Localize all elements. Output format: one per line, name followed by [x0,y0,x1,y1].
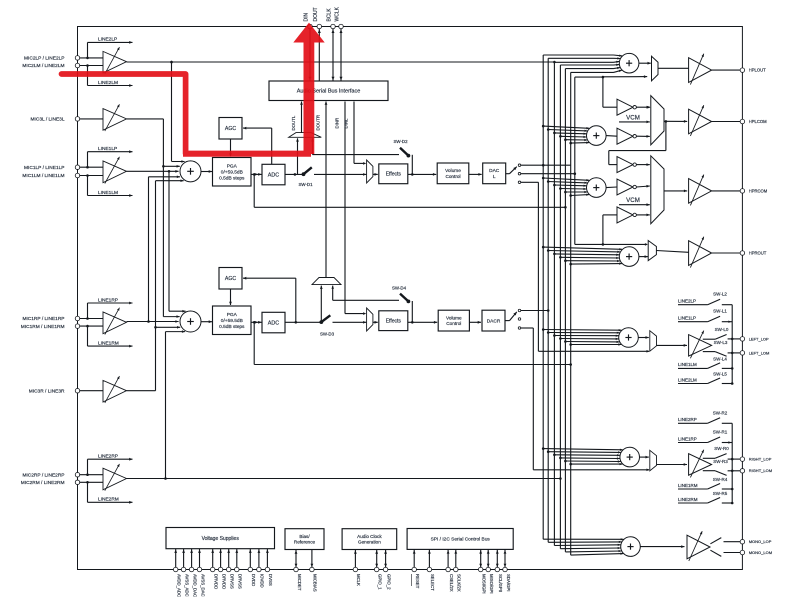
svg-text:SW-D1: SW-D1 [298,182,313,187]
svg-text:DRVDD: DRVDD [221,574,226,589]
svg-text:DOUTL: DOUTL [291,115,296,130]
svg-text:MIC2LM / LINE2LM: MIC2LM / LINE2LM [22,63,64,69]
svg-text:DRVSS: DRVSS [238,574,243,589]
svg-text:HPLOUT: HPLOUT [749,68,766,73]
svg-text:HPROUT: HPROUT [749,251,767,256]
svg-text:SW-L2: SW-L2 [713,292,727,297]
svg-text:L: L [493,174,496,180]
svg-text:AVDD_ADC: AVDD_ADC [177,574,182,597]
svg-text:LINE2LP: LINE2LP [678,299,696,304]
svg-text:SW-D2: SW-D2 [393,139,408,144]
svg-text:LINE2RP: LINE2RP [98,454,118,460]
svg-text:LEFT_LOP: LEFT_LOP [749,336,769,341]
svg-text:VCM: VCM [626,197,640,204]
svg-text:LINE2LP: LINE2LP [98,37,117,43]
svg-text:IOVDD: IOVDD [260,574,265,588]
svg-text:LINE1RP: LINE1RP [98,297,118,303]
svg-text:LINE1RM: LINE1RM [98,340,119,346]
svg-text:AGC: AGC [225,276,236,282]
svg-text:MIC2RM / LINE2RM: MIC2RM / LINE2RM [21,480,65,486]
svg-text:DINR: DINR [334,118,339,129]
svg-text:SW-R0: SW-R0 [714,446,729,451]
svg-text:MIC1RM / LINE1RM: MIC1RM / LINE1RM [21,324,65,330]
svg-text:LINE1LP: LINE1LP [678,316,696,321]
svg-text:AGC: AGC [225,126,236,132]
svg-text:DOUT: DOUT [313,7,319,21]
svg-text:MICBIAS: MICBIAS [313,574,318,592]
svg-text:Effects: Effects [386,319,402,325]
svg-text:Volume: Volume [445,168,461,173]
svg-text:AVSS_ADC: AVSS_ADC [184,574,189,597]
svg-text:ADC: ADC [268,320,279,326]
svg-text:ADC: ADC [268,172,279,178]
svg-text:AVDD_DAC: AVDD_DAC [192,574,197,597]
svg-text:SW-L5: SW-L5 [713,372,727,377]
svg-text:SW-L0: SW-L0 [715,327,729,332]
svg-text:SCL/GPII: SCL/GPII [498,574,503,592]
svg-text:DAC: DAC [489,168,500,174]
svg-text:LINE1LM: LINE1LM [98,190,118,196]
svg-text:LINE1RM: LINE1RM [678,483,698,488]
svg-text:SW-L1: SW-L1 [713,309,727,314]
svg-text:HPLCOM: HPLCOM [749,119,767,124]
svg-text:MIC1LP / LINE1LP: MIC1LP / LINE1LP [24,165,64,171]
svg-text:LINE2LM: LINE2LM [678,377,697,382]
svg-text:SELECT: SELECT [430,574,435,591]
svg-text:Effects: Effects [386,172,402,178]
svg-text:MIC2RP / LINE2RP: MIC2RP / LINE2RP [22,472,64,478]
svg-text:LEFT_LOM: LEFT_LOM [749,350,770,355]
svg-text:Audio Clock: Audio Clock [357,534,382,539]
svg-text:SW-R4: SW-R4 [713,477,728,482]
svg-text:SW-D3: SW-D3 [320,331,335,336]
svg-text:PGA: PGA [227,164,238,170]
svg-text:LINE1LM: LINE1LM [678,362,697,367]
svg-text:DOUTR: DOUTR [315,115,320,131]
svg-text:RESET: RESET [415,574,420,589]
svg-text:0/+59.5dB: 0/+59.5dB [221,169,243,175]
svg-text:Generation: Generation [358,540,381,545]
svg-text:VCM: VCM [626,114,640,121]
svg-text:PGA: PGA [227,312,238,318]
svg-text:LINE1LP: LINE1LP [98,146,117,152]
svg-text:MIC3L / LINE3L: MIC3L / LINE3L [31,117,65,123]
svg-text:WCLK: WCLK [335,6,341,21]
svg-text:DIN: DIN [304,13,310,22]
svg-text:LINE2RM: LINE2RM [98,497,119,503]
svg-text:Voltage Supplies: Voltage Supplies [202,536,240,542]
svg-text:SPI / I2C Serial Control Bus: SPI / I2C Serial Control Bus [431,537,491,543]
svg-text:DRVDD: DRVDD [214,574,219,589]
svg-text:GPIO_2: GPIO_2 [386,574,391,590]
svg-text:LINE1RP: LINE1RP [678,436,697,441]
svg-text:Reference: Reference [294,540,316,545]
svg-text:SW-R5: SW-R5 [713,491,728,496]
svg-text:MICDET: MICDET [297,574,302,591]
svg-text:SW-R3: SW-R3 [713,459,728,464]
svg-text:DVSS: DVSS [268,574,273,586]
svg-text:MIC1LM / LINE1LM: MIC1LM / LINE1LM [22,173,64,179]
svg-text:DVDD: DVDD [251,574,256,586]
svg-text:BCLK: BCLK [327,8,333,22]
svg-text:MIC3R / LINE3R: MIC3R / LINE3R [29,388,65,394]
svg-text:SDA/GPI: SDA/GPI [506,574,511,591]
svg-text:MCLK: MCLK [356,574,361,586]
svg-text:HPRCOM: HPRCOM [749,188,768,193]
svg-text:SW-R2: SW-R2 [713,410,728,415]
svg-text:RIGHT_LOM: RIGHT_LOM [749,468,772,473]
svg-text:0/+59.5dB: 0/+59.5dB [221,318,243,324]
svg-text:Control: Control [446,321,461,326]
svg-text:MONO_LOP: MONO_LOP [749,539,772,544]
svg-text:MOSI/GPI: MOSI/GPI [482,574,487,594]
svg-text:LINE2RP: LINE2RP [678,417,697,422]
svg-text:RIGHT_LOP: RIGHT_LOP [749,457,772,462]
svg-text:Bias/: Bias/ [299,534,310,539]
svg-text:SCLK/2X: SCLK/2X [457,574,462,592]
svg-text:Control: Control [445,174,460,179]
svg-text:GPIO_1: GPIO_1 [378,574,383,590]
svg-text:LINE2RM: LINE2RM [678,497,698,502]
svg-text:SW-L3: SW-L3 [714,340,728,345]
svg-text:LINE2LM: LINE2LM [98,80,118,86]
svg-text:DRVSS: DRVSS [230,574,235,589]
svg-text:SW-R1: SW-R1 [713,430,728,435]
svg-text:CSEL/2X: CSEL/2X [449,574,454,592]
svg-text:MIC1RP / LINE1RP: MIC1RP / LINE1RP [22,316,64,322]
svg-text:DACR: DACR [487,318,501,324]
svg-text:SW-L4: SW-L4 [713,356,727,361]
svg-text:MIC2LP / LINE2LP: MIC2LP / LINE2LP [24,56,64,62]
svg-text:SW-D4: SW-D4 [392,285,407,290]
svg-text:MONO_LOM: MONO_LOM [749,550,772,555]
svg-text:Volume: Volume [446,315,462,320]
svg-text:AVSS_DAC: AVSS_DAC [200,574,205,597]
svg-text:0.5dB steps: 0.5dB steps [219,175,245,181]
svg-text:0.5dB steps: 0.5dB steps [219,324,245,330]
svg-text:DINL: DINL [344,118,349,129]
svg-text:MISO/GPI: MISO/GPI [489,574,494,594]
